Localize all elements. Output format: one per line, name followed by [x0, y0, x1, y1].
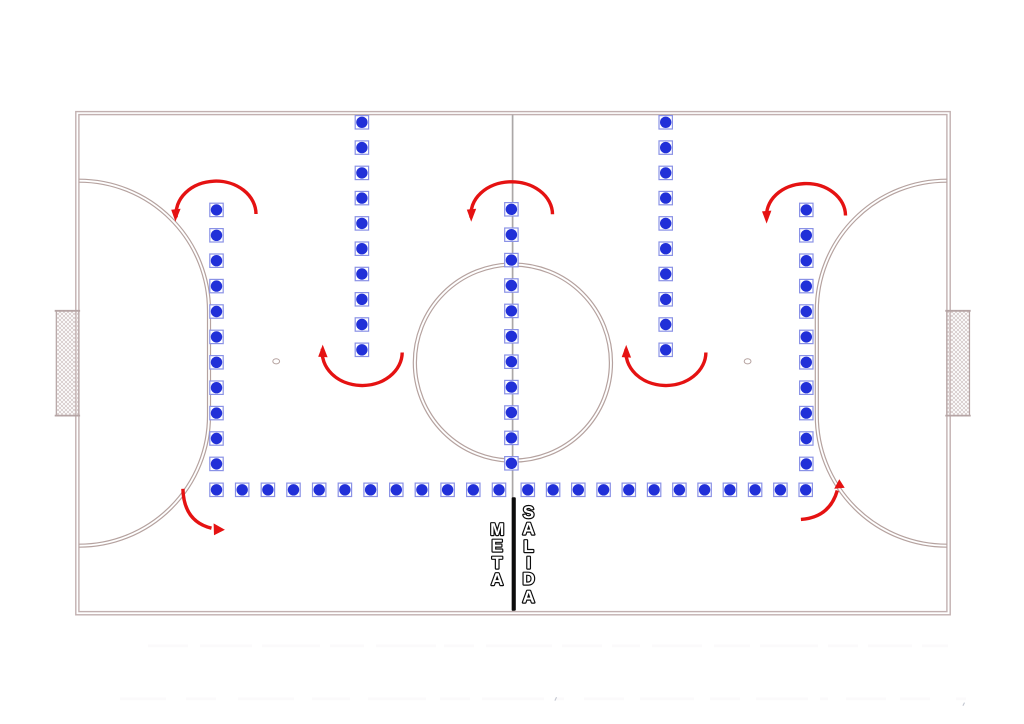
- court boundary outer line: [76, 112, 950, 615]
- start/finish line: [512, 497, 516, 611]
- tiny stray mark 1: [555, 697, 557, 700]
- cone column 3 (centre): [505, 203, 518, 470]
- bottom cone row right half: [521, 483, 812, 496]
- faint ghost caption row 2: [120, 698, 966, 701]
- right penalty area: [815, 179, 947, 547]
- svg-text:A: A: [522, 520, 534, 539]
- left penalty mark: [273, 359, 280, 364]
- left penalty area: [79, 179, 211, 547]
- svg-text:A: A: [522, 588, 534, 607]
- cone column 4: [659, 116, 672, 357]
- right goal: [945, 311, 970, 416]
- red arrow bottom-right: [801, 479, 845, 519]
- cone column 5 (right): [800, 203, 813, 470]
- court boundary inner line: [79, 115, 947, 612]
- halfway line: [512, 115, 514, 612]
- cone column 1 (left): [210, 203, 223, 470]
- red arrow under column 4: [622, 345, 706, 386]
- tiny stray mark 2: [963, 703, 965, 706]
- label META: [490, 520, 504, 589]
- right penalty mark: [744, 359, 751, 364]
- red arrow over column 3: [467, 182, 553, 222]
- red arrow under column 2: [318, 345, 402, 386]
- label SALIDA: [522, 503, 534, 607]
- cone column 2: [355, 116, 368, 357]
- faint ghost caption row 1: [148, 645, 948, 648]
- left goal: [55, 311, 80, 416]
- svg-text:D: D: [522, 570, 534, 589]
- svg-text:A: A: [491, 570, 503, 589]
- centre circle: [413, 263, 612, 462]
- red arrow over column 5: [762, 184, 846, 224]
- red arrow over column 1: [171, 181, 256, 221]
- red arrow bottom-left: [183, 489, 225, 535]
- bottom cone row left half: [210, 483, 506, 496]
